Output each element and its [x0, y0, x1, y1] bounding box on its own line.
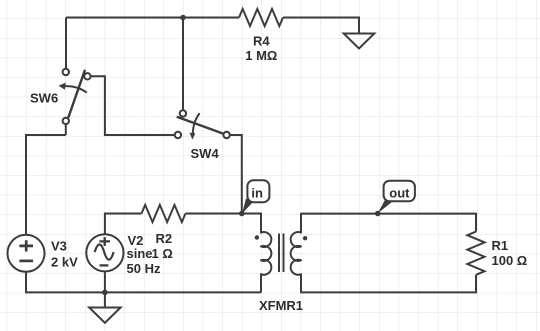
- node junction top rail: [180, 15, 186, 21]
- SW4 lever: [177, 117, 224, 134]
- wire SW6 right throw to SW4: [91, 76, 175, 135]
- switch SW4: [175, 110, 230, 139]
- wire top rail corner to SW6: [65, 18, 67, 69]
- XFMR1 primary phase dot: [255, 235, 259, 239]
- node in dot: [239, 211, 245, 217]
- SW6 lever: [68, 70, 85, 118]
- SW4 terminal left: [175, 132, 181, 138]
- XFMR1 core lines: [279, 234, 284, 273]
- wire top rail right segment: [283, 18, 359, 34]
- transformer XFMR1: [255, 214, 308, 293]
- wire junction to SW4: [182, 18, 184, 111]
- XFMR1 secondary winding: [291, 214, 301, 293]
- svg-text:R2: R2: [156, 231, 173, 246]
- wire V2 top to R2 rail: [105, 214, 142, 235]
- out flag box: [384, 181, 415, 202]
- svg-text:in: in: [251, 185, 263, 200]
- SW6 terminal right throw: [84, 73, 90, 79]
- node out dot: [375, 211, 381, 217]
- switch SW6: [59, 69, 91, 124]
- wire R2 to transformer primary: [186, 214, 262, 233]
- svg-text:SW4: SW4: [191, 146, 220, 161]
- V3 body circle: [8, 235, 45, 272]
- in flag box: [247, 180, 269, 202]
- V3 plus sign: [19, 240, 33, 251]
- resistor R2: [142, 205, 186, 222]
- node out flag callout: [378, 181, 415, 214]
- V2 minus sign: [100, 264, 109, 266]
- svg-text:SW6: SW6: [30, 91, 58, 106]
- svg-text:1 MΩ: 1 MΩ: [245, 48, 277, 63]
- V2 plus sign: [99, 237, 110, 246]
- node in flag callout: [242, 180, 269, 214]
- XFMR1 primary winding: [261, 232, 271, 275]
- out flag tail: [378, 198, 393, 213]
- SW4 terminal right: [223, 132, 229, 138]
- node junction bottom rail: [102, 290, 108, 296]
- SW6 terminal common: [63, 118, 69, 124]
- svg-text:1 Ω: 1 Ω: [152, 246, 173, 261]
- svg-text:R1: R1: [492, 238, 509, 253]
- wire SW4 right to in node: [230, 135, 242, 214]
- voltage source V3: [8, 235, 45, 272]
- svg-text:XFMR1: XFMR1: [259, 298, 303, 313]
- resistor R4: [239, 9, 283, 26]
- wire secondary bottom rail: [301, 275, 476, 293]
- wire SW6 bottom stub: [65, 124, 67, 135]
- wire primary bottom stub: [260, 274, 262, 292]
- SW4 terminal top: [180, 110, 186, 116]
- svg-text:100 Ω: 100 Ω: [492, 253, 528, 268]
- voltage source V2: [86, 234, 123, 271]
- in flag tail: [242, 199, 253, 214]
- wire SW6 bottom to left rail: [26, 135, 66, 235]
- XFMR1 secondary phase dot: [303, 236, 307, 240]
- wire V2 bottom stub: [104, 271, 106, 292]
- svg-text:50 Hz: 50 Hz: [127, 261, 161, 276]
- SW4 actuation arrow arc: [193, 113, 200, 133]
- wire top rail left segment: [66, 17, 239, 19]
- svg-text:2 kV: 2 kV: [51, 255, 78, 270]
- V3 minus sign: [19, 260, 33, 263]
- V2 sine symbol: [95, 245, 114, 260]
- wire secondary top rail: [301, 214, 476, 232]
- wire V3 bottom to bottom rail: [26, 271, 261, 292]
- SW6 arrowhead: [59, 83, 66, 90]
- ground bottom: [89, 292, 120, 322]
- ground top right: [344, 34, 375, 49]
- SW6 terminal left throw: [63, 69, 69, 75]
- resistor R1: [467, 232, 484, 275]
- svg-text:V3: V3: [51, 238, 67, 253]
- V2 body circle: [86, 234, 123, 271]
- svg-text:R4: R4: [253, 34, 270, 49]
- svg-text:out: out: [389, 185, 410, 200]
- svg-text:sine: sine: [127, 246, 153, 261]
- SW4 arrowhead: [190, 133, 196, 140]
- SW6 actuation arrow arc: [65, 86, 87, 92]
